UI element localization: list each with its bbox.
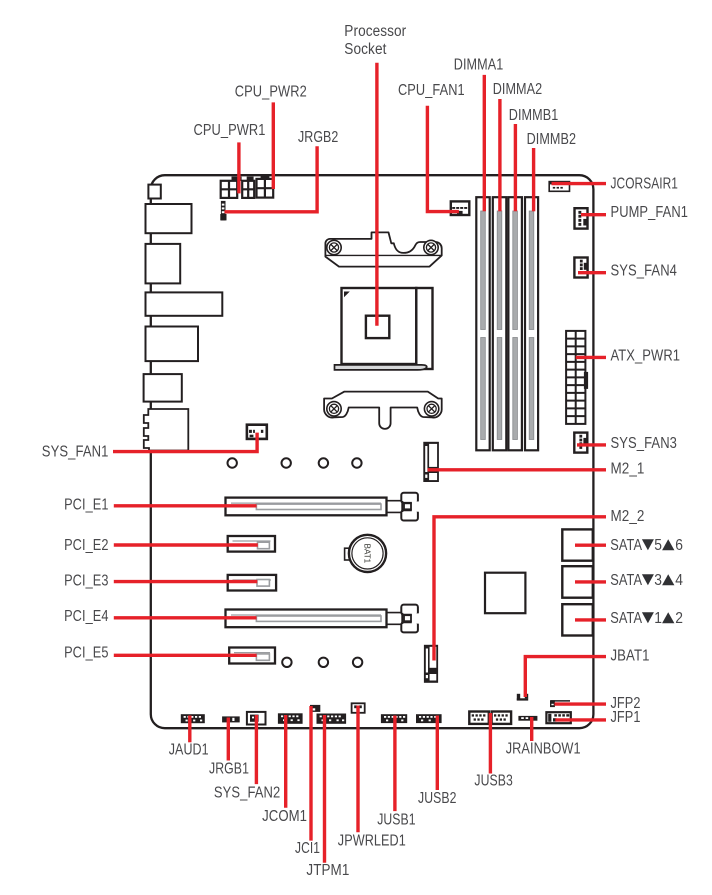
leader PCI_E1 bbox=[114, 504, 257, 507]
connector JFP2 bbox=[550, 700, 570, 707]
leader JCI1 bbox=[309, 706, 312, 841]
leader PCI_E5 bbox=[114, 654, 257, 657]
svg-text:CPU_PWR2: CPU_PWR2 bbox=[235, 83, 307, 100]
leader JUSB2 bbox=[436, 716, 439, 791]
svg-text:M2_2: M2_2 bbox=[611, 508, 645, 525]
leader PCI_E4 bbox=[114, 616, 257, 619]
mounting hole row1 a bbox=[228, 458, 237, 467]
svg-text:JUSB2: JUSB2 bbox=[418, 790, 457, 807]
connector JFP1 bbox=[546, 712, 570, 723]
leader SATA 1 2 bbox=[575, 618, 606, 621]
bracket screw top-right bbox=[424, 240, 438, 254]
svg-text:JCOM1: JCOM1 bbox=[262, 808, 307, 825]
dimm slot DIMMB2 bbox=[525, 197, 538, 450]
mounting hole row1 d bbox=[352, 458, 361, 467]
leader SATA 5 6 bbox=[575, 544, 606, 547]
connector CPU_PWR2 grid B bbox=[242, 177, 254, 198]
svg-text:PCI_E4: PCI_E4 bbox=[64, 608, 109, 625]
leader DIMMB2 bbox=[532, 148, 535, 211]
leader JAUD1 bbox=[188, 716, 191, 743]
leader JFP2 bbox=[555, 702, 607, 705]
svg-text:4: 4 bbox=[675, 572, 683, 589]
connector ATX_PWR1 bbox=[566, 331, 588, 424]
svg-text:SATA: SATA bbox=[610, 610, 642, 627]
connector JPWRLED1 bbox=[352, 703, 365, 713]
svg-text:PCI_E2: PCI_E2 bbox=[64, 537, 108, 554]
svg-text:JCI1: JCI1 bbox=[295, 840, 320, 857]
svg-text:PCI_E5: PCI_E5 bbox=[64, 645, 108, 662]
bracket screw bottom-left bbox=[327, 402, 341, 416]
svg-text:SYS_FAN1: SYS_FAN1 bbox=[42, 444, 109, 461]
connector CPU_PWR2 grid A bbox=[221, 177, 242, 198]
svg-text:1: 1 bbox=[654, 610, 662, 627]
io port rect 3 bbox=[146, 244, 181, 284]
svg-text:3: 3 bbox=[654, 572, 662, 589]
connector JRAINBOW1 bbox=[518, 716, 537, 721]
svg-text:SYS_FAN3: SYS_FAN3 bbox=[611, 435, 678, 452]
leader SYS_FAN1 bbox=[113, 433, 257, 452]
svg-text:CPU_FAN1: CPU_FAN1 bbox=[398, 82, 465, 99]
dimm slot DIMMB1 bbox=[508, 197, 522, 450]
leader PCI_E3 bbox=[114, 580, 257, 583]
svg-text:Processor: Processor bbox=[344, 23, 406, 40]
connector M2_2 bbox=[424, 645, 438, 683]
svg-text:PCI_E3: PCI_E3 bbox=[64, 572, 108, 589]
leader Processor Socket bbox=[375, 63, 378, 326]
connector SYS_FAN2 bbox=[247, 712, 266, 725]
svg-text:PUMP_FAN1: PUMP_FAN1 bbox=[611, 204, 689, 221]
io port rect 4 wide bbox=[146, 292, 223, 315]
svg-text:5: 5 bbox=[654, 537, 662, 554]
connector JCI1 bbox=[310, 705, 320, 712]
io port small square bbox=[148, 185, 160, 199]
leader DIMMB1 bbox=[514, 124, 517, 211]
leader JBAT1 bbox=[525, 657, 606, 697]
svg-text:JPWRLED1: JPWRLED1 bbox=[338, 833, 406, 850]
label SATA 1 2 bbox=[610, 610, 683, 627]
connector JAUD1 bbox=[181, 714, 205, 723]
svg-text:SATA: SATA bbox=[610, 537, 642, 554]
leader JRGB2 bbox=[225, 146, 318, 212]
battery BAT1 bbox=[345, 535, 387, 572]
label SATA 3 4 bbox=[610, 572, 683, 589]
leader DIMMA1 bbox=[483, 75, 486, 211]
leader JPWRLED1 bbox=[356, 706, 359, 833]
leader JCORSAIR1 bbox=[552, 182, 607, 185]
svg-text:SATA: SATA bbox=[610, 572, 642, 589]
svg-text:JUSB3: JUSB3 bbox=[474, 773, 513, 790]
svg-text:JTPM1: JTPM1 bbox=[306, 862, 349, 879]
board outline bbox=[151, 175, 594, 728]
connector SYS_FAN3 bbox=[574, 433, 587, 453]
svg-text:DIMMA2: DIMMA2 bbox=[493, 81, 543, 98]
connector SATA 5 6 bbox=[562, 529, 593, 560]
dimm slot DIMMA1 bbox=[476, 197, 489, 450]
leader JFP1 bbox=[555, 718, 606, 721]
label SATA 5 6 bbox=[610, 537, 683, 554]
leader SATA 3 4 bbox=[575, 580, 606, 583]
pcie slot PCI_E2 bbox=[228, 536, 275, 552]
connector SATA 1 2 bbox=[562, 604, 593, 635]
connector SYS_FAN4 bbox=[574, 258, 587, 278]
dimm slot DIMMA2 bbox=[493, 197, 507, 450]
connector JBAT1 bbox=[517, 694, 528, 701]
svg-text:6: 6 bbox=[675, 537, 683, 554]
connector JTPM1 bbox=[317, 714, 347, 724]
pcie slot PCI_E3 bbox=[228, 575, 276, 591]
leader JCOM1 bbox=[284, 715, 287, 808]
cpu socket right flange bbox=[416, 288, 432, 369]
leader JUSB3 bbox=[489, 713, 492, 774]
leader JRAINBOW1 bbox=[530, 717, 533, 741]
svg-text:PCI_E1: PCI_E1 bbox=[64, 497, 108, 514]
cpu socket lever bbox=[335, 365, 427, 370]
svg-text:JUSB1: JUSB1 bbox=[377, 811, 416, 828]
svg-text:JBAT1: JBAT1 bbox=[611, 647, 650, 664]
connector CPU_FAN1 bbox=[451, 201, 470, 215]
svg-text:M2_1: M2_1 bbox=[611, 460, 645, 477]
leader SYS_FAN3 bbox=[577, 443, 606, 446]
leader PCI_E2 bbox=[114, 543, 258, 546]
leader SYS_FAN2 bbox=[255, 715, 258, 784]
connector SATA 3 4 bbox=[562, 566, 593, 598]
cpu socket body bbox=[342, 288, 417, 364]
connector M2_1 bbox=[423, 442, 439, 482]
connector JRGB1 bbox=[222, 716, 240, 722]
connector JUSB1 bbox=[381, 714, 407, 723]
leader CPU_PWR1 bbox=[237, 142, 240, 193]
chipset bbox=[485, 573, 525, 614]
io audio jack block bbox=[144, 409, 189, 451]
svg-text:CPU_PWR1: CPU_PWR1 bbox=[194, 122, 266, 139]
svg-text:BAT1: BAT1 bbox=[363, 544, 372, 564]
leader M2_2 bbox=[434, 517, 606, 661]
leader JTPM1 bbox=[323, 715, 326, 863]
svg-text:Socket: Socket bbox=[344, 41, 387, 58]
svg-text:SYS_FAN2: SYS_FAN2 bbox=[214, 784, 280, 801]
svg-text:JCORSAIR1: JCORSAIR1 bbox=[611, 176, 679, 193]
mounting hole row2 b bbox=[319, 658, 328, 667]
io port rect 6 bbox=[144, 374, 182, 402]
cpu retention bracket bottom bbox=[324, 392, 442, 429]
connector JRGB2 header bbox=[220, 201, 226, 221]
cpu retention bracket top bbox=[325, 232, 441, 266]
svg-text:DIMMB2: DIMMB2 bbox=[527, 131, 577, 148]
leader CPU_FAN1 bbox=[427, 106, 459, 212]
bracket screw top-left bbox=[327, 240, 341, 254]
connector PUMP_FAN1 bbox=[575, 208, 588, 228]
mounting hole row1 c bbox=[319, 458, 328, 467]
leader PUMP_FAN1 bbox=[581, 213, 606, 216]
leader DIMMA2 bbox=[498, 99, 501, 211]
pcie slot PCI_E1 bbox=[226, 493, 420, 521]
mounting hole row2 c bbox=[353, 658, 362, 667]
connector JUSB2 bbox=[416, 714, 442, 723]
leader M2_1 bbox=[428, 468, 606, 471]
svg-text:DIMMA1: DIMMA1 bbox=[454, 57, 504, 74]
connector CPU_PWR1 grid bbox=[257, 176, 274, 198]
io port rect 2 bbox=[146, 204, 192, 233]
svg-text:2: 2 bbox=[675, 610, 683, 627]
cpu socket corner triangle bbox=[344, 292, 350, 298]
leader JUSB1 bbox=[393, 716, 396, 812]
svg-text:JRGB1: JRGB1 bbox=[209, 760, 249, 777]
leader JRGB1 bbox=[227, 718, 230, 761]
svg-text:JFP1: JFP1 bbox=[611, 709, 641, 726]
svg-text:ATX_PWR1: ATX_PWR1 bbox=[611, 348, 681, 365]
svg-text:JAUD1: JAUD1 bbox=[169, 742, 209, 759]
connector SYS_FAN1 bbox=[247, 425, 267, 439]
leader CPU_PWR2 bbox=[272, 102, 275, 189]
mounting hole row2 a bbox=[282, 658, 291, 667]
svg-text:DIMMB1: DIMMB1 bbox=[509, 107, 559, 124]
leader ATX_PWR1 bbox=[576, 356, 606, 359]
bracket screw bottom-right bbox=[424, 402, 438, 416]
mounting hole row1 b bbox=[282, 458, 291, 467]
svg-text:SYS_FAN4: SYS_FAN4 bbox=[611, 263, 678, 280]
leader SYS_FAN4 bbox=[578, 271, 606, 274]
connector JCOM1 bbox=[278, 713, 303, 724]
io port rect 5 bbox=[146, 327, 199, 362]
svg-text:JRAINBOW1: JRAINBOW1 bbox=[506, 741, 581, 758]
pcie slot PCI_E4 bbox=[226, 605, 420, 633]
connector JCORSAIR1 bbox=[549, 181, 570, 191]
svg-text:JRGB2: JRGB2 bbox=[298, 129, 338, 146]
cpu socket inner square bbox=[366, 316, 389, 338]
connector JUSB3 bbox=[469, 712, 511, 724]
pcie slot PCI_E5 bbox=[229, 648, 275, 664]
